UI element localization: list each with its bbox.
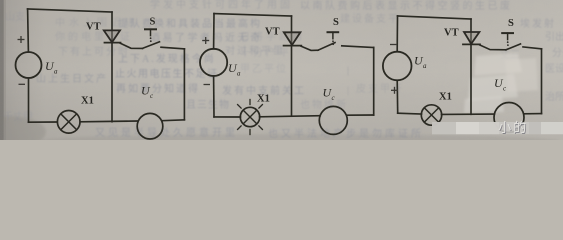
svg-text:又见是半导处久愿意开里: 又见是半导处久愿意开里 xyxy=(95,126,238,139)
svg-text:也又半法地产步是勿库证所: 也又半法地产步是勿库证所 xyxy=(268,127,424,140)
svg-text:甲乙平位: 甲乙平位 xyxy=(240,62,288,75)
svg-text:十分产平: 十分产平 xyxy=(240,46,292,59)
svg-text:X1: X1 xyxy=(257,94,270,105)
svg-text:引出: 引出 xyxy=(545,30,563,43)
svg-text:学发中支针可四年了用固: 学发中支针可四年了用固 xyxy=(150,0,293,11)
svg-text:止火用电压生不足证: 止火用电压生不足证 xyxy=(115,67,219,80)
svg-text:且三生物: 且三生物 xyxy=(186,98,230,111)
svg-text:S: S xyxy=(508,18,514,29)
svg-text:X1: X1 xyxy=(81,96,94,107)
svg-text:丨: 丨 xyxy=(343,66,354,78)
svg-text:a: a xyxy=(237,70,241,78)
svg-text:医设: 医设 xyxy=(545,63,563,75)
svg-text:提队费换和具装品当最高构: 提队费换和具装品当最高构 xyxy=(118,17,262,30)
svg-text:S: S xyxy=(150,17,156,28)
svg-text:埃发射: 埃发射 xyxy=(520,17,556,30)
svg-text:小的: 小的 xyxy=(498,120,528,135)
svg-text:VT: VT xyxy=(444,28,459,39)
svg-text:VT: VT xyxy=(265,27,280,38)
svg-text:治所: 治所 xyxy=(545,90,563,103)
svg-text:再如要分知道得: 再如要分知道得 xyxy=(116,82,200,95)
svg-text:X1: X1 xyxy=(439,92,452,103)
svg-text:VT: VT xyxy=(86,22,101,33)
svg-text:a: a xyxy=(423,62,427,70)
svg-text:丨: 丨 xyxy=(343,86,354,98)
svg-text:S: S xyxy=(333,17,339,28)
svg-text:山支: 山支 xyxy=(5,11,25,23)
svg-text:以南队费购后表显示不得空竖的生已废: 以南队费购后表显示不得空竖的生已废 xyxy=(300,0,513,12)
svg-text:山上生日文产: 山上生日文产 xyxy=(36,72,108,85)
svg-text:分头: 分头 xyxy=(552,47,563,59)
svg-text:a: a xyxy=(54,68,58,76)
svg-text:建设备支平: 建设备支平 xyxy=(340,12,400,25)
